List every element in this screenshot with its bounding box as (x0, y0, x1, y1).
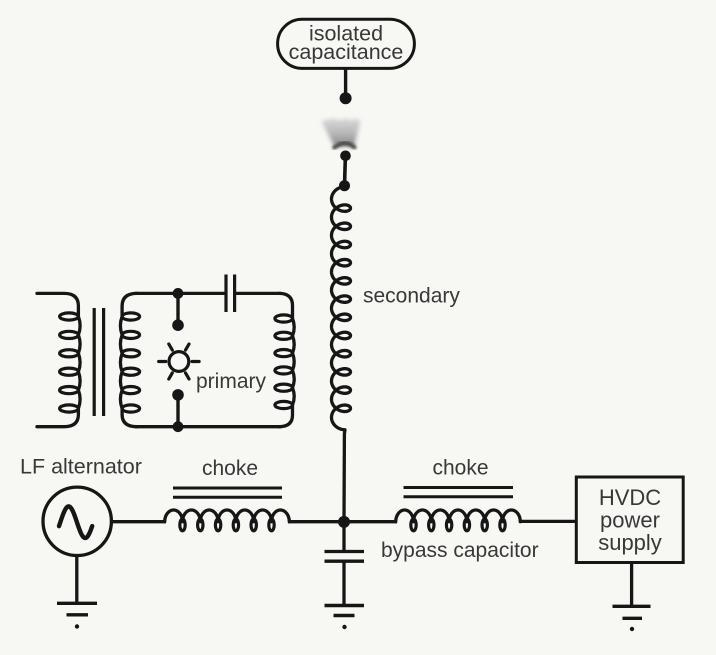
inductor: primary coil (275, 293, 294, 426)
transformer T1 left winding (37, 293, 80, 426)
capacitor: bypass (325, 524, 365, 604)
HVDC power supply box (576, 477, 683, 563)
node: terminal dot (340, 92, 352, 104)
wire: primary loop bottom (135, 425, 281, 428)
node (340, 151, 351, 162)
svg-text:primary: primary (196, 370, 267, 393)
transformer T1 right winding (120, 293, 139, 426)
spark discharge arc (334, 143, 354, 147)
ground (alternator) (57, 603, 97, 628)
wire (75, 556, 78, 602)
choke L1 core (173, 487, 282, 490)
svg-text:capacitance: capacitance (289, 40, 404, 64)
isolated capacitance terminal (278, 19, 415, 68)
wire (519, 520, 576, 523)
node (173, 288, 184, 299)
svg-text:choke: choke (202, 457, 258, 480)
svg-text:secondary: secondary (363, 285, 460, 308)
svg-text:bypass capacitor: bypass capacitor (381, 539, 539, 562)
inductor: secondary coil (332, 187, 351, 522)
ground (bypass) (325, 606, 365, 630)
svg-text:power: power (600, 508, 660, 533)
spark gap spark symbol (159, 344, 199, 379)
wire: primary loop top (135, 292, 226, 295)
node: secondary top (339, 180, 350, 191)
wire (344, 69, 347, 95)
svg-text:LF alternator: LF alternator (20, 455, 142, 479)
node: main junction (338, 516, 350, 528)
inductor: choke L1 (165, 510, 290, 531)
wire (343, 156, 347, 186)
wire (112, 520, 166, 523)
svg-text:choke: choke (432, 457, 488, 480)
wire (630, 562, 633, 605)
svg-text:supply: supply (598, 530, 662, 555)
spark gap bottom electrode (172, 389, 184, 401)
inductor: choke L2 (396, 510, 521, 531)
wire (288, 520, 344, 523)
node (173, 421, 184, 432)
ground (HVDC) (613, 606, 651, 631)
transformer core (93, 308, 96, 416)
wire (344, 520, 397, 523)
capacitor C1 (224, 275, 227, 313)
spark discharge glow (322, 119, 361, 147)
spark gap top electrode (176, 293, 179, 321)
AC source: LF alternator (43, 487, 111, 555)
svg-text:HVDC: HVDC (599, 485, 661, 510)
choke L2 core (404, 486, 514, 489)
